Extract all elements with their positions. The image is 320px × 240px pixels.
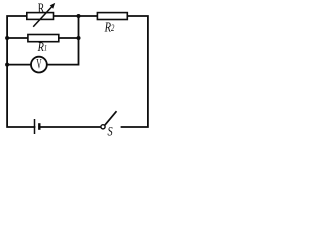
junction node at left rail / voltmeter branch bbox=[5, 63, 9, 67]
rheostat arrow bbox=[33, 3, 55, 27]
wire: voltmeter branch left lead bbox=[7, 64, 30, 66]
resistor R1 body bbox=[28, 35, 59, 42]
wire: top-right stub, right rail, bottom-right stub bbox=[122, 16, 148, 127]
svg-text:S: S bbox=[108, 125, 113, 139]
wire: top middle segment (R to R2) bbox=[54, 15, 98, 17]
svg-text:V: V bbox=[36, 55, 42, 73]
wire: top-left stub, left rail, bottom-left stub bbox=[7, 16, 34, 127]
svg-text:R: R bbox=[38, 0, 45, 16]
junction node at left rail / R1 branch bbox=[5, 36, 9, 40]
battery cell: short (negative) electrode bbox=[38, 123, 40, 130]
voltmeter V (circle) bbox=[31, 57, 47, 73]
switch S pivot circle bbox=[101, 125, 105, 129]
wire: R1 branch right lead bbox=[59, 37, 79, 39]
wire: R1 branch left lead bbox=[7, 37, 28, 39]
svg-text:R2: R2 bbox=[104, 19, 115, 35]
switch lever bbox=[105, 111, 117, 125]
wire: voltmeter branch right lead and middle junction column bbox=[48, 16, 79, 65]
junction node at R1 branch / middle column bbox=[77, 36, 81, 40]
junction node at top wire / middle column bbox=[77, 14, 81, 18]
battery cell: long (positive) electrode bbox=[34, 119, 36, 134]
wire: battery to switch segment bbox=[39, 126, 101, 128]
resistor R (rheostat body) bbox=[27, 13, 54, 20]
resistor R2 body bbox=[97, 13, 127, 20]
